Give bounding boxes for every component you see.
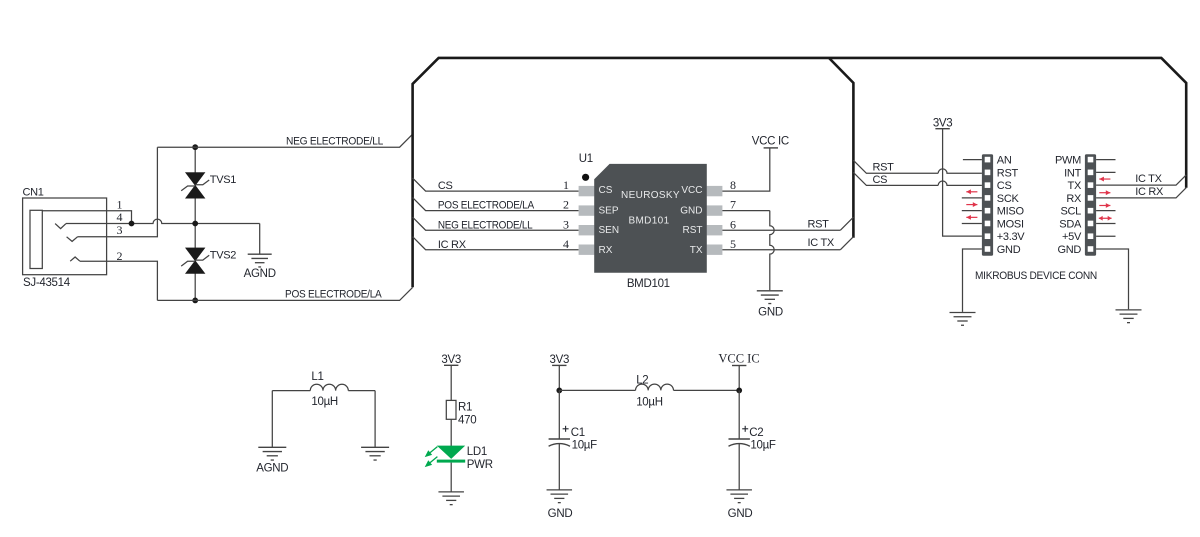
net label NEG ELECTRODE/LL [286, 135, 383, 147]
net label POS ELECTRODE/LA [285, 289, 382, 301]
wire node to L2 [559, 389, 635, 391]
svg-text:3V3: 3V3 [441, 354, 461, 366]
net label RST (pin6) [808, 218, 830, 230]
svg-text:MISO: MISO [997, 206, 1025, 218]
svg-text:IC TX: IC TX [1135, 173, 1162, 185]
ground GND (U1) [757, 291, 783, 319]
wire VCC IC down to node [738, 366, 740, 391]
wire stub SDA [1096, 222, 1115, 224]
ground (LD1) [438, 492, 464, 505]
pin number 2 (CN1) [117, 249, 123, 263]
wire P1 GND down [963, 249, 982, 312]
svg-text:R1: R1 [458, 401, 472, 413]
arrow MISO out [966, 202, 977, 207]
ground GND (P2) [1116, 310, 1142, 323]
pin number 6 (U1) [730, 217, 736, 231]
svg-text:RST: RST [997, 167, 1019, 179]
inductor L1 [310, 371, 348, 408]
svg-text:CS: CS [997, 180, 1012, 192]
svg-text:L1: L1 [311, 371, 323, 383]
svg-text:NEUROSKY: NEUROSKY [621, 190, 680, 201]
svg-text:RX: RX [599, 245, 613, 256]
svg-text:8: 8 [730, 178, 736, 192]
op-amp U1 body [594, 164, 707, 273]
svg-text:VCC: VCC [681, 185, 702, 196]
svg-text:AN: AN [997, 155, 1012, 167]
svg-text:3: 3 [563, 217, 569, 231]
svg-text:TX: TX [1068, 180, 1082, 192]
header P1 MIKROBUS left body [982, 154, 993, 256]
svg-text:1: 1 [563, 178, 569, 192]
svg-text:GND: GND [758, 307, 783, 319]
svg-text:C1: C1 [571, 427, 585, 439]
svg-text:MOSI: MOSI [997, 218, 1024, 230]
LED LD1 [426, 446, 493, 472]
svg-text:IC RX: IC RX [1135, 186, 1164, 198]
junction POS/TVS2 [192, 298, 198, 304]
wire pin3 up to NEG net [78, 147, 158, 237]
svg-text:TVS2: TVS2 [210, 250, 236, 262]
pin number 4 (U1) [563, 237, 569, 251]
svg-text:NEG ELECTRODE/LL: NEG ELECTRODE/LL [286, 135, 383, 147]
svg-text:10µF: 10µF [572, 439, 598, 451]
wire L1 left down [271, 391, 273, 448]
svg-text:IC TX: IC TX [808, 237, 835, 249]
TVS diode TVS1 [181, 173, 236, 199]
wire pin2 down to POS net [80, 261, 157, 300]
power flag 3V3 (C1) [550, 354, 570, 366]
junction pins 1-4 [129, 221, 135, 227]
svg-text:2: 2 [563, 198, 569, 212]
resistor R1 [446, 400, 476, 426]
svg-text:GND: GND [548, 508, 573, 520]
net label POS ELECTRODE/LA (pin2) [438, 200, 535, 212]
svg-text:PWM: PWM [1055, 155, 1081, 167]
wire NEG ELECTRODE/LL to pin3 [413, 217, 579, 230]
svg-text:GND: GND [997, 244, 1021, 256]
arrow SCK in [966, 189, 977, 194]
svg-text:SCL: SCL [1061, 206, 1082, 218]
pin number 7 (U1) [730, 198, 736, 212]
op-amp U1 pads [579, 186, 723, 255]
pin number 3 (U1) [563, 217, 569, 231]
net label NEG ELECTRODE/LL (pin3) [438, 219, 533, 231]
pin number 5 (U1) [730, 237, 736, 251]
svg-text:SCK: SCK [997, 193, 1020, 205]
svg-text:6: 6 [730, 217, 736, 231]
junction mid/TVS [192, 221, 198, 227]
wire stub SCK [962, 197, 982, 199]
pin number 3 (CN1) [117, 223, 123, 237]
svg-text:U1: U1 [579, 153, 593, 165]
wire 3V3 to R1 [450, 365, 452, 400]
svg-text:VCC IC: VCC IC [752, 135, 789, 147]
wire stub AN [963, 159, 982, 161]
junction VCCIC/L2/C2 [736, 388, 742, 394]
wire L1 right down [374, 391, 376, 448]
capacitor C2 [729, 390, 776, 490]
svg-text:7: 7 [730, 198, 736, 212]
svg-text:RST: RST [683, 225, 703, 236]
svg-text:470: 470 [458, 415, 476, 427]
svg-text:3V3: 3V3 [550, 354, 570, 366]
wire R1 to LD1 [450, 419, 452, 446]
arrow SCL out [1099, 203, 1110, 208]
svg-text:SEN: SEN [599, 225, 620, 236]
U1 reference label [579, 153, 593, 165]
header P2 pin labels [1055, 155, 1082, 256]
svg-text:4: 4 [563, 237, 569, 251]
wire L2 to VCC node [674, 389, 740, 391]
svg-text:SDA: SDA [1059, 218, 1082, 230]
net label IC RX (header) [1135, 186, 1164, 198]
wire stub SCL [1096, 210, 1115, 212]
power flag 3V3 (header) [933, 117, 953, 129]
jack switch contact pin3 [67, 237, 78, 242]
capacitor C1 [549, 390, 598, 490]
header P1 pin labels [997, 155, 1026, 256]
junction 3V3/C1/L2 [556, 388, 562, 394]
wire stub PWM [1096, 159, 1115, 161]
wire TVS chain vertical [194, 147, 196, 300]
header P2 MIKROBUS right body [1085, 154, 1096, 256]
wire CS to header [853, 172, 982, 185]
svg-text:+3.3V: +3.3V [997, 231, 1026, 243]
ground GND (C2) [726, 490, 752, 520]
svg-text:GND: GND [680, 205, 702, 216]
TVS diode TVS2 [181, 248, 236, 274]
pin number 1 (U1) [563, 178, 569, 192]
junction NEG/TVS1 [192, 144, 198, 150]
bus branch to BMD101 [829, 58, 854, 238]
svg-text:+5V: +5V [1062, 231, 1082, 243]
wire NEG ELECTRODE/LL [157, 134, 412, 147]
wire L1 right [348, 390, 375, 392]
wire stub MISO [962, 210, 982, 212]
svg-text:IC RX: IC RX [438, 239, 467, 251]
svg-text:AGND: AGND [244, 268, 276, 280]
wire POS ELECTRODE/LA to pin2 [413, 198, 579, 211]
svg-text:BMD101: BMD101 [627, 278, 670, 290]
svg-text:NEG ELECTRODE/LL: NEG ELECTRODE/LL [438, 219, 533, 231]
power flag 3V3 (R1) [441, 354, 461, 366]
net label IC RX [438, 239, 467, 251]
pin number 4 (CN1) [117, 210, 123, 224]
inductor L2 [636, 374, 674, 408]
wire IC RX from bus [1096, 188, 1186, 198]
svg-text:POS ELECTRODE/LA: POS ELECTRODE/LA [285, 289, 382, 301]
svg-text:LD1: LD1 [467, 446, 487, 458]
svg-text:TVS1: TVS1 [210, 174, 236, 186]
svg-text:3V3: 3V3 [933, 117, 953, 129]
wire 3V3 down to node [558, 365, 560, 390]
wire pin1 [42, 211, 131, 224]
pin number 8 (U1) [730, 178, 736, 192]
wire stub +5V [1096, 235, 1115, 237]
wire L1 left [272, 390, 310, 392]
pin number 1 (CN1) [117, 198, 123, 212]
pin number 2 (U1) [563, 198, 569, 212]
svg-text:TX: TX [690, 245, 703, 256]
svg-text:AGND: AGND [256, 462, 288, 474]
U1 part name below [627, 278, 670, 290]
svg-text:3: 3 [117, 223, 123, 237]
svg-text:10µH: 10µH [311, 396, 338, 408]
arrow SDA bidir [1099, 216, 1112, 221]
wire IC RX to pin4 [413, 237, 579, 250]
ground (L1 right) [361, 447, 389, 460]
ground GND (C1) [547, 490, 573, 520]
arrow RX out [1099, 190, 1110, 195]
power flag VCC IC (C2) [718, 352, 759, 366]
connector CN1 body [23, 198, 107, 275]
wire pin5 TX to bus [722, 237, 853, 250]
svg-text:RST: RST [873, 162, 895, 174]
net label CS [438, 180, 453, 192]
wire pin8 to VCC IC [722, 148, 769, 191]
arrow MOSI in [966, 215, 977, 220]
wire CS to pin1 [413, 178, 579, 191]
wire 3V3 to +3.3V pin [943, 129, 982, 236]
svg-text:CS: CS [873, 174, 888, 186]
header title [975, 270, 1097, 282]
svg-text:PWR: PWR [467, 459, 493, 471]
connector CN1 part number [23, 277, 71, 289]
svg-text:CN1: CN1 [23, 187, 44, 199]
svg-text:L2: L2 [636, 374, 648, 386]
svg-text:SJ-43514: SJ-43514 [23, 277, 71, 289]
power flag VCC IC [752, 135, 789, 148]
wire stub INT [1096, 171, 1115, 173]
jack switch contact pin4 [55, 224, 66, 229]
wire POS ELECTRODE/LA [157, 287, 412, 300]
net label RST (header) [873, 162, 895, 174]
svg-text:MIKROBUS DEVICE CONN: MIKROBUS DEVICE CONN [975, 270, 1097, 282]
wire stub MOSI [962, 222, 982, 224]
svg-text:SEP: SEP [599, 205, 619, 216]
svg-text:GND: GND [728, 508, 753, 520]
svg-text:VCC IC: VCC IC [718, 352, 759, 366]
svg-text:RST: RST [808, 218, 830, 230]
wire IC TX from bus [1096, 175, 1186, 185]
connector CN1 label [23, 187, 44, 199]
ground GND (P1) [950, 313, 976, 326]
svg-text:C2: C2 [749, 427, 763, 439]
jack switch contact pin2 [70, 257, 80, 261]
net label IC TX (header) [1135, 173, 1162, 185]
net label IC TX (pin5) [808, 237, 835, 249]
U1 internal pin names [599, 185, 703, 256]
svg-text:10µH: 10µH [636, 397, 663, 409]
wire LD1 to ground [450, 463, 452, 492]
svg-text:5: 5 [730, 237, 736, 251]
svg-text:10µF: 10µF [750, 439, 776, 451]
svg-text:CS: CS [438, 180, 453, 192]
svg-text:CS: CS [599, 185, 613, 196]
wire pin7 to GND [722, 211, 774, 291]
svg-text:BMD101: BMD101 [628, 216, 669, 227]
wire RST to header [853, 160, 982, 173]
wire pin6 RST to bus [722, 217, 853, 230]
svg-text:INT: INT [1064, 167, 1081, 179]
wire pin4 to AGND [66, 219, 260, 254]
svg-text:RX: RX [1066, 193, 1082, 205]
arrow TX in [1099, 177, 1110, 182]
svg-text:GND: GND [1057, 244, 1081, 256]
bus main outline [413, 58, 1187, 287]
ground AGND (jack) [244, 254, 276, 280]
svg-text:POS ELECTRODE/LA: POS ELECTRODE/LA [438, 200, 535, 212]
wire P2 GND down [1096, 249, 1128, 309]
ground AGND (L1) [256, 447, 288, 474]
U1 pin1 marker dot [582, 174, 589, 181]
net label CS (header) [873, 174, 888, 186]
